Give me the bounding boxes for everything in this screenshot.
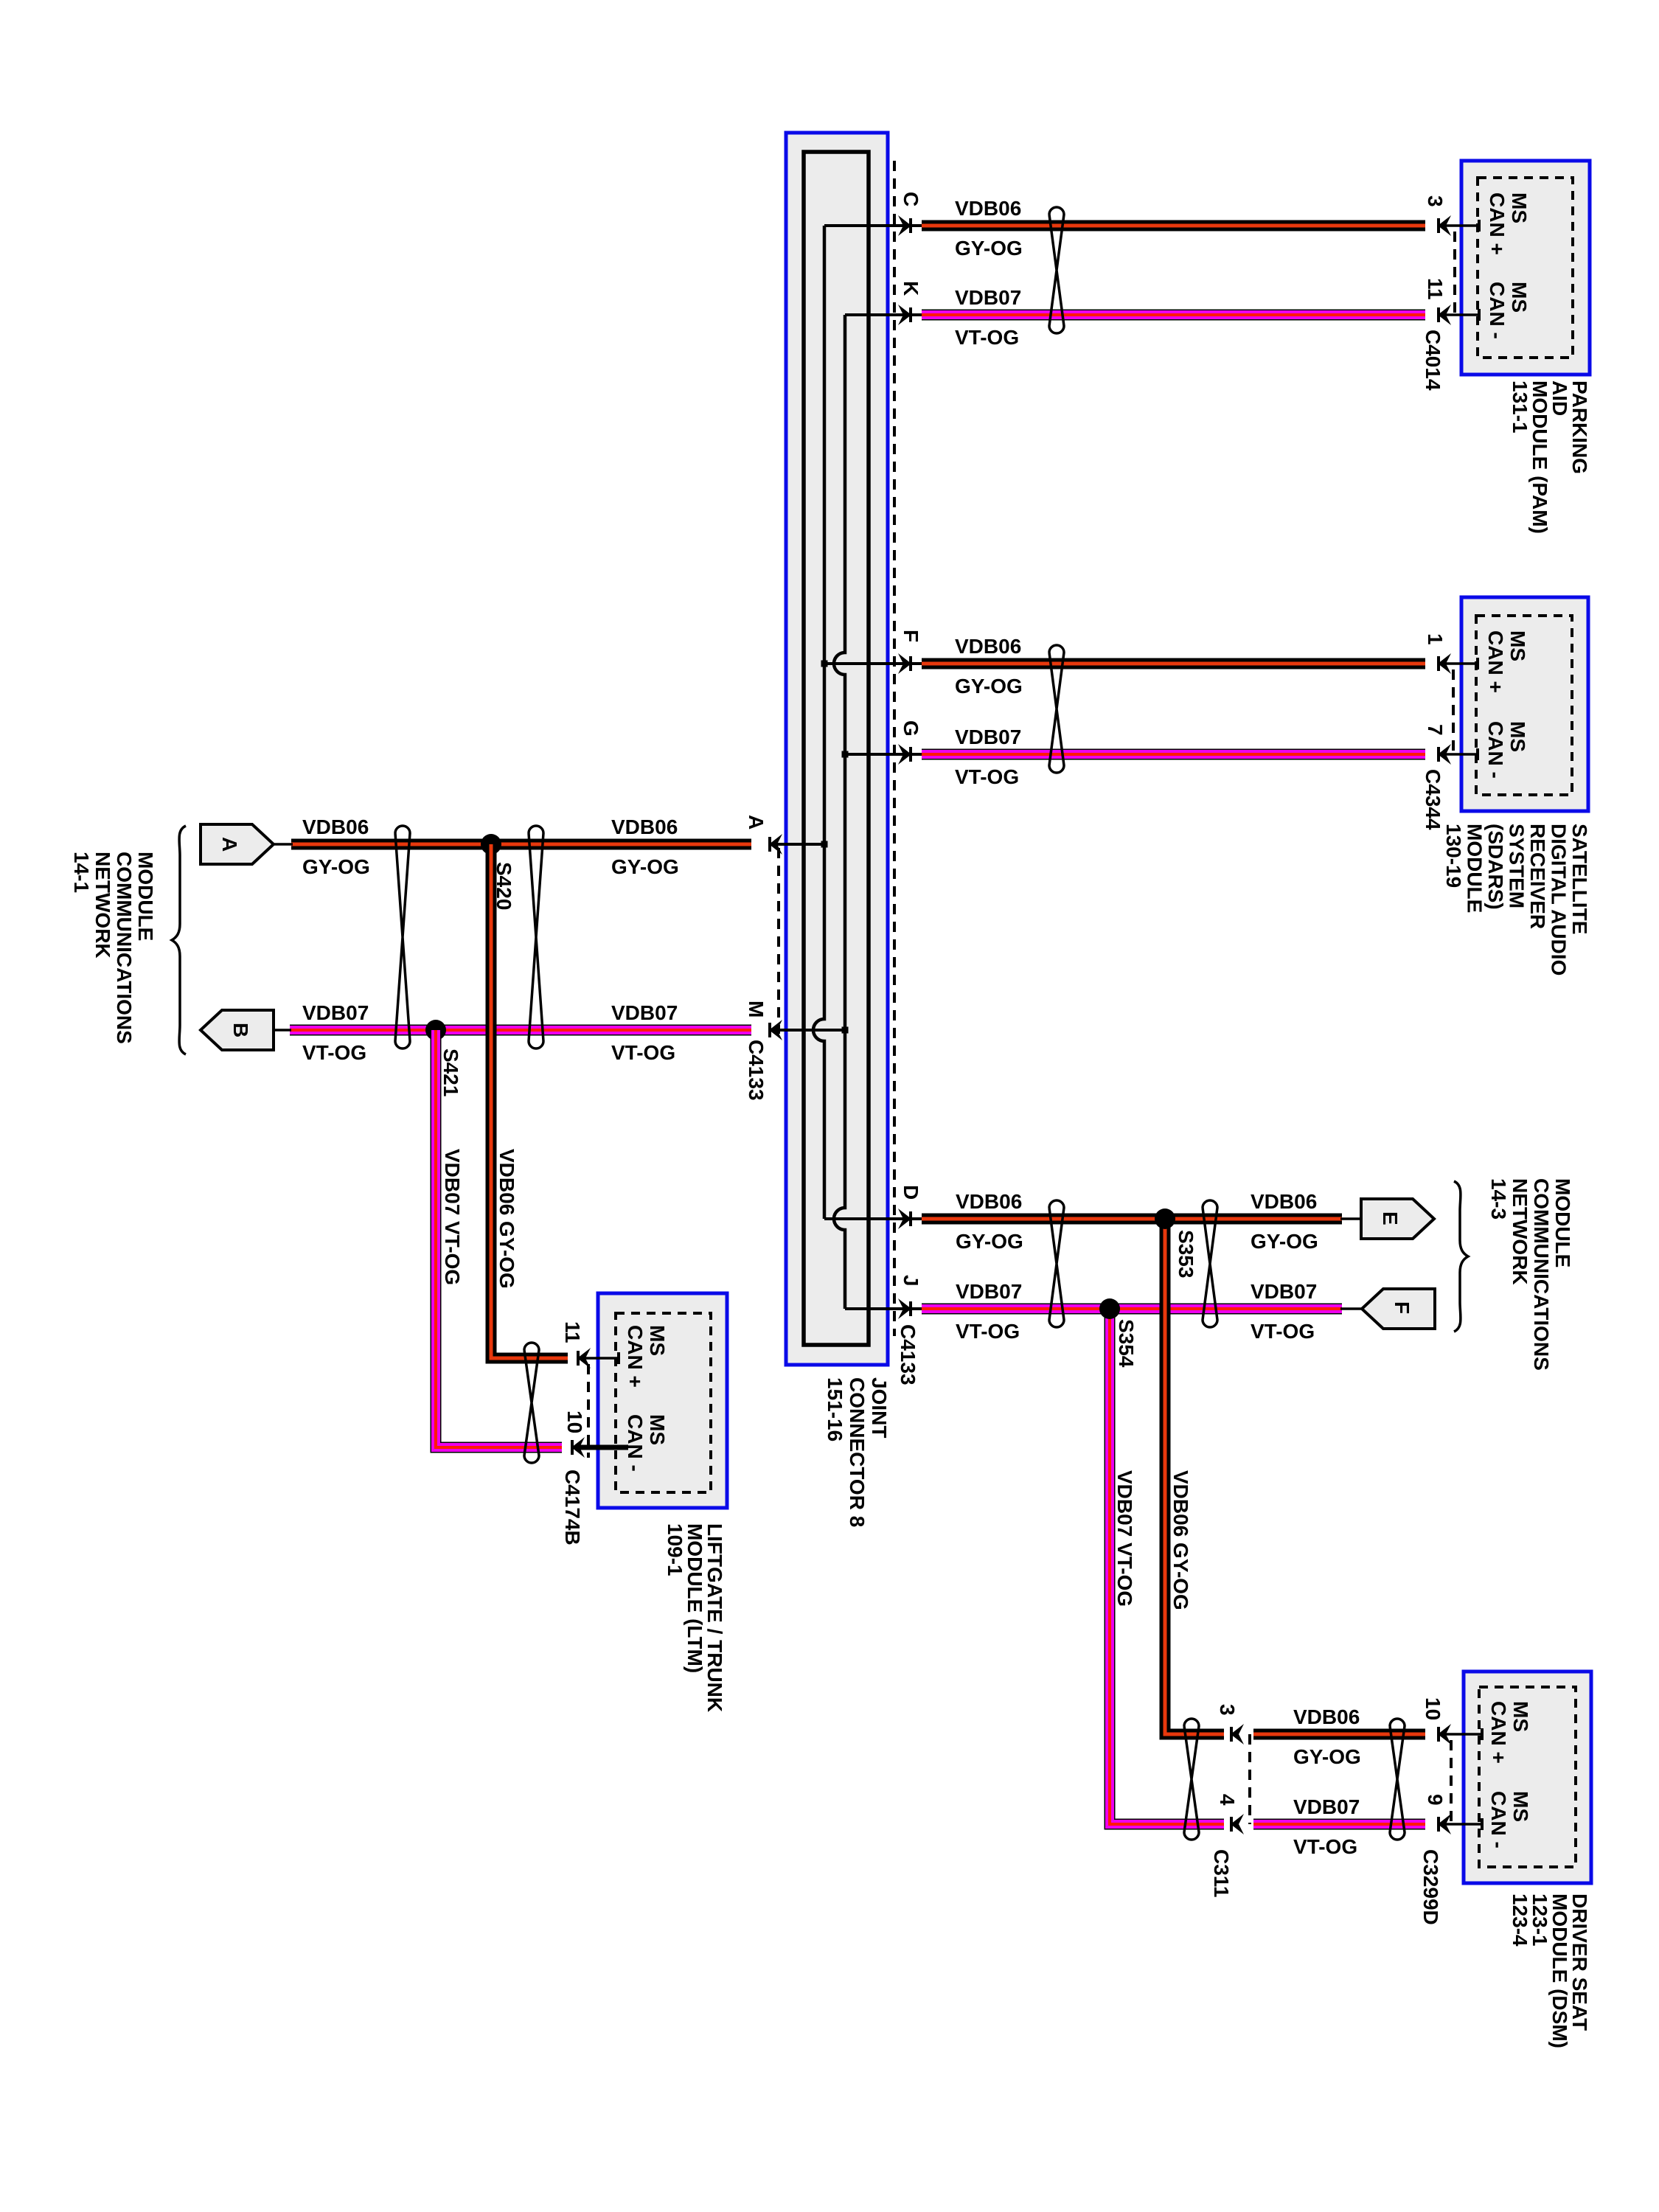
svg-text:C4014: C4014 (1422, 330, 1444, 391)
svg-text:MS: MS (1509, 1791, 1532, 1822)
svg-text:VDB07: VDB07 (302, 1001, 369, 1024)
svg-text:1: 1 (1424, 633, 1447, 645)
svg-text:9: 9 (1424, 1794, 1447, 1806)
svg-text:VDB06: VDB06 (956, 1190, 1022, 1213)
svg-text:(SDARS): (SDARS) (1484, 824, 1507, 910)
svg-text:VT-OG: VT-OG (1293, 1835, 1357, 1858)
svg-text:7: 7 (1424, 724, 1447, 736)
svg-text:GY-OG: GY-OG (611, 855, 679, 878)
svg-text:VDB06: VDB06 (1251, 1190, 1317, 1213)
svg-text:COMMUNICATIONS: COMMUNICATIONS (1530, 1178, 1553, 1371)
svg-text:C3299D: C3299D (1419, 1849, 1442, 1925)
svg-text:CAN +: CAN + (1487, 1701, 1510, 1764)
svg-text:C4174B: C4174B (561, 1470, 584, 1545)
svg-text:VDB07 VT-OG: VDB07 VT-OG (441, 1149, 464, 1285)
svg-text:130-19: 130-19 (1442, 824, 1465, 888)
svg-text:E: E (1379, 1211, 1402, 1225)
svg-text:VT-OG: VT-OG (955, 326, 1019, 349)
svg-text:S354: S354 (1115, 1319, 1138, 1368)
svg-text:SATELLITE: SATELLITE (1568, 824, 1591, 934)
svg-text:VDB06: VDB06 (1293, 1705, 1360, 1728)
svg-text:SYSTEM: SYSTEM (1506, 824, 1528, 908)
svg-text:3: 3 (1424, 195, 1447, 207)
svg-text:123-4: 123-4 (1509, 1893, 1531, 1947)
svg-text:VDB07: VDB07 (611, 1001, 678, 1024)
svg-text:A: A (218, 837, 241, 852)
svg-text:B: B (229, 1023, 252, 1037)
svg-text:VDB06: VDB06 (955, 197, 1021, 220)
svg-text:VDB07 VT-OG: VDB07 VT-OG (1113, 1470, 1136, 1607)
svg-text:JOINT: JOINT (868, 1377, 891, 1438)
svg-text:VDB06: VDB06 (611, 815, 678, 838)
svg-text:10: 10 (1422, 1697, 1444, 1720)
svg-text:VDB06: VDB06 (955, 635, 1021, 658)
svg-text:GY-OG: GY-OG (956, 1230, 1023, 1253)
svg-text:K: K (900, 281, 922, 296)
svg-text:VDB06: VDB06 (302, 815, 369, 838)
svg-text:GY-OG: GY-OG (955, 675, 1023, 698)
svg-text:CAN -: CAN - (1487, 1791, 1510, 1848)
svg-text:CAN -: CAN - (624, 1414, 647, 1472)
svg-text:MODULE: MODULE (134, 852, 157, 941)
svg-text:VDB06 GY-OG: VDB06 GY-OG (495, 1149, 518, 1289)
svg-text:CAN +: CAN + (1486, 192, 1509, 255)
svg-text:COMMUNICATIONS: COMMUNICATIONS (113, 852, 136, 1044)
svg-text:F: F (900, 630, 922, 642)
svg-text:S421: S421 (439, 1048, 462, 1096)
svg-text:GY-OG: GY-OG (1251, 1230, 1318, 1253)
svg-text:VDB07: VDB07 (956, 1280, 1022, 1303)
svg-text:14-3: 14-3 (1487, 1178, 1510, 1220)
svg-text:MS: MS (646, 1325, 669, 1356)
svg-text:MS: MS (1509, 1701, 1532, 1732)
svg-text:D: D (900, 1185, 922, 1200)
svg-text:109-1: 109-1 (664, 1523, 686, 1576)
svg-text:C311: C311 (1210, 1849, 1233, 1897)
svg-text:VT-OG: VT-OG (302, 1041, 366, 1064)
svg-text:151-16: 151-16 (824, 1377, 846, 1441)
svg-text:14-1: 14-1 (70, 852, 93, 893)
svg-text:VDB06 GY-OG: VDB06 GY-OG (1169, 1470, 1192, 1610)
svg-text:CAN +: CAN + (624, 1325, 647, 1388)
svg-text:A: A (745, 815, 768, 829)
svg-text:S353: S353 (1175, 1230, 1197, 1278)
svg-text:VT-OG: VT-OG (611, 1041, 675, 1064)
svg-text:GY-OG: GY-OG (1293, 1745, 1361, 1768)
svg-text:MS: MS (1506, 721, 1529, 752)
svg-text:MODULE: MODULE (1464, 824, 1486, 913)
svg-text:CAN -: CAN - (1484, 721, 1507, 779)
svg-text:NETWORK: NETWORK (1509, 1178, 1531, 1285)
svg-text:VT-OG: VT-OG (1251, 1320, 1315, 1343)
svg-text:11: 11 (1424, 278, 1447, 300)
svg-text:VT-OG: VT-OG (956, 1320, 1020, 1343)
svg-text:C4344: C4344 (1422, 769, 1444, 830)
svg-text:RECEIVER: RECEIVER (1526, 824, 1549, 929)
svg-text:3: 3 (1216, 1704, 1239, 1716)
svg-text:VDB07: VDB07 (1251, 1280, 1317, 1303)
svg-text:DIGITAL AUDIO: DIGITAL AUDIO (1548, 824, 1571, 975)
svg-text:MS: MS (1506, 630, 1529, 661)
svg-text:CAN -: CAN - (1486, 282, 1509, 339)
svg-text:CAN +: CAN + (1484, 630, 1507, 693)
svg-text:C: C (900, 192, 922, 206)
svg-text:M: M (745, 1001, 768, 1018)
svg-text:VT-OG: VT-OG (955, 765, 1019, 788)
svg-text:131-1: 131-1 (1509, 380, 1531, 434)
svg-text:GY-OG: GY-OG (302, 855, 370, 878)
svg-text:C4133: C4133 (745, 1040, 768, 1101)
svg-text:VDB07: VDB07 (1293, 1795, 1360, 1818)
svg-text:F: F (1391, 1301, 1413, 1314)
svg-text:S420: S420 (493, 862, 515, 910)
svg-text:GY-OG: GY-OG (955, 237, 1023, 260)
svg-text:MODULE: MODULE (1551, 1178, 1574, 1267)
svg-text:11: 11 (561, 1321, 584, 1343)
svg-text:C4133: C4133 (897, 1324, 919, 1385)
svg-text:MS: MS (1508, 282, 1531, 313)
svg-text:4: 4 (1216, 1794, 1239, 1806)
svg-text:VDB07: VDB07 (955, 726, 1021, 748)
svg-text:MS: MS (1508, 192, 1531, 223)
svg-text:VDB07: VDB07 (955, 286, 1021, 309)
svg-text:G: G (900, 720, 922, 737)
svg-text:MS: MS (646, 1414, 669, 1445)
svg-text:CONNECTOR 8: CONNECTOR 8 (846, 1377, 869, 1527)
svg-text:10: 10 (563, 1411, 586, 1433)
svg-text:J: J (900, 1275, 922, 1287)
svg-text:NETWORK: NETWORK (91, 852, 114, 959)
